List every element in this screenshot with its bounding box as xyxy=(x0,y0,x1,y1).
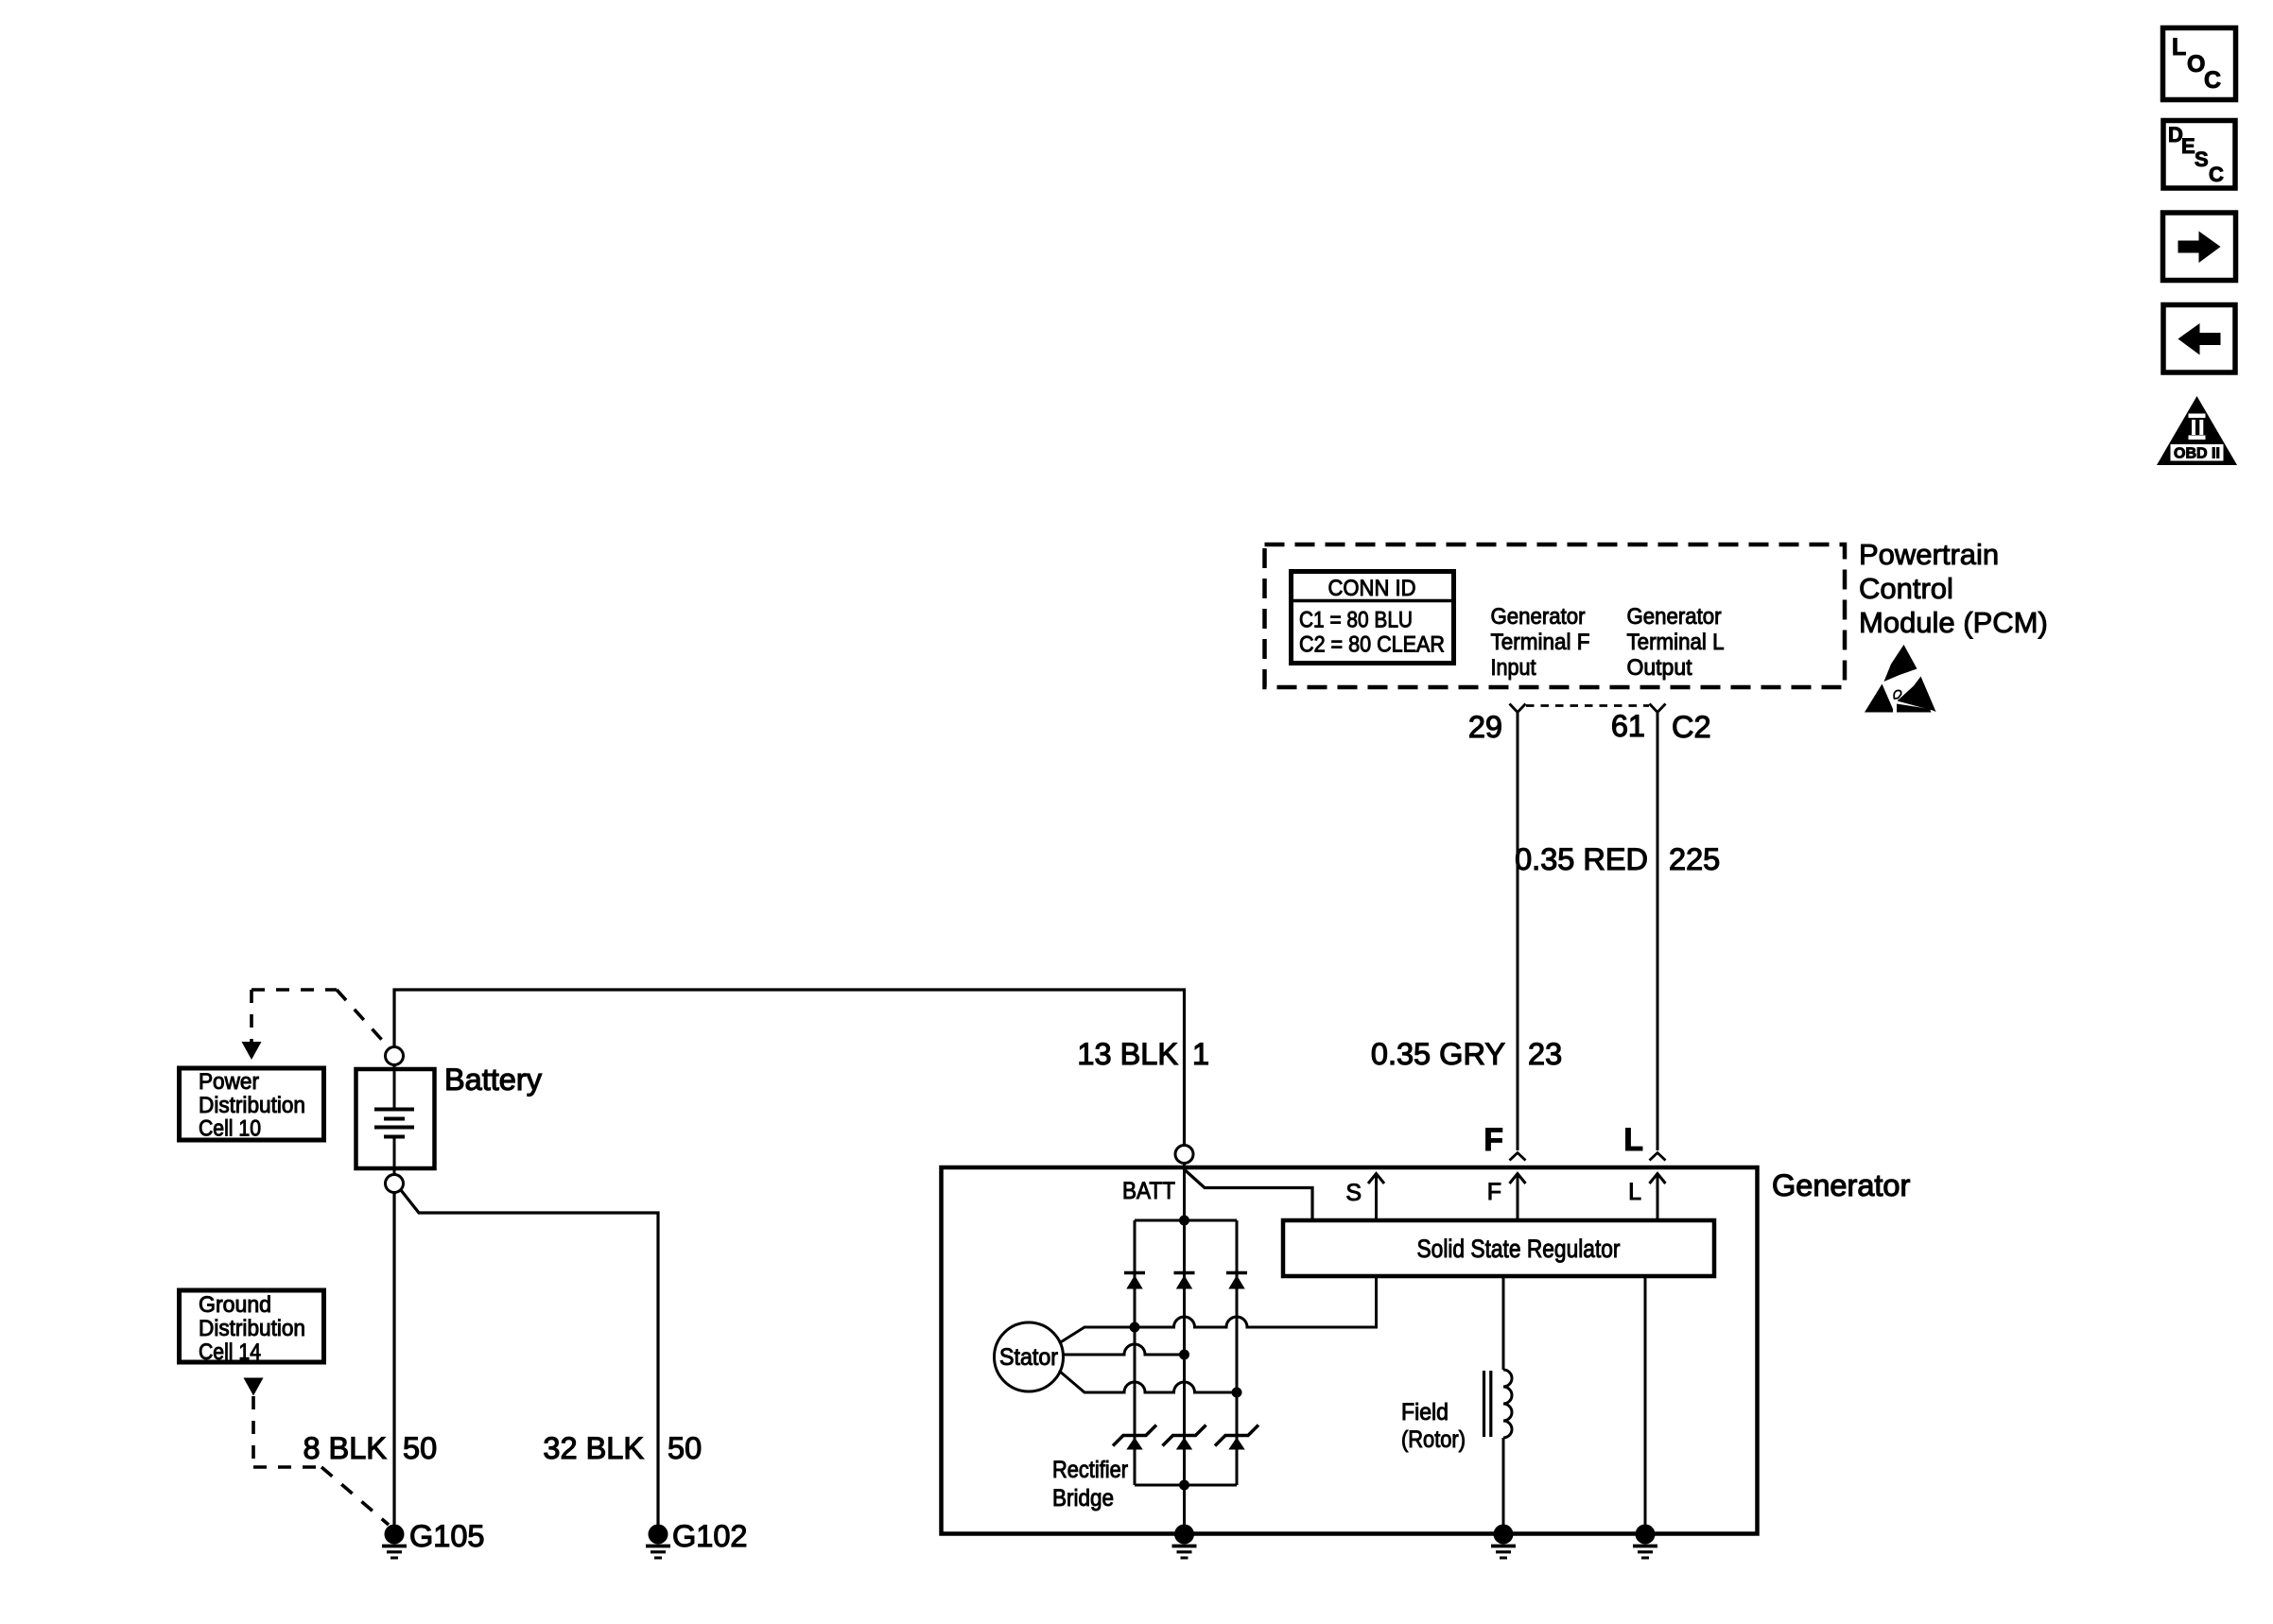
svg-text:Ground: Ground xyxy=(199,1292,271,1318)
icon OBD II triangle xyxy=(2157,396,2237,465)
svg-text:Module (PCM): Module (PCM) xyxy=(1859,606,2048,639)
diode D1 xyxy=(1124,1273,1145,1289)
svg-text:C: C xyxy=(2209,163,2224,186)
Generator box xyxy=(942,1167,1758,1534)
label Generator Terminal L Output xyxy=(1627,604,1725,681)
svg-text:Distribution: Distribution xyxy=(199,1316,305,1341)
wire battery+ to generator BATT (13 BLK) xyxy=(394,990,1185,1145)
svg-text:8 BLK: 8 BLK xyxy=(303,1431,387,1465)
svg-text:C2: C2 xyxy=(1672,710,1711,744)
svg-text:Terminal F: Terminal F xyxy=(1491,630,1590,655)
icon DESC box xyxy=(2163,121,2235,189)
field coil wire to ground xyxy=(1502,1438,1505,1534)
svg-text:C: C xyxy=(2204,67,2221,94)
S input arrow xyxy=(1345,1174,1384,1219)
field rotor coil wire xyxy=(1502,1276,1505,1370)
avalanche diode Z2 xyxy=(1163,1425,1206,1450)
svg-text:G102: G102 xyxy=(672,1519,748,1553)
junction dot bottom rail xyxy=(1179,1480,1189,1491)
svg-text:Generator: Generator xyxy=(1772,1168,1911,1202)
svg-text:Solid State Regulator: Solid State Regulator xyxy=(1417,1235,1621,1263)
ground G105 xyxy=(382,1519,485,1558)
stator phase A wire (top) xyxy=(1059,1278,1377,1343)
dashed reference to Ground Distribution Cell 14 xyxy=(244,1378,264,1396)
svg-text:0.35 GRY: 0.35 GRY xyxy=(1371,1037,1505,1071)
L input arrow xyxy=(1628,1174,1665,1219)
icon left-arrow box xyxy=(2163,305,2235,373)
svg-text:Generator: Generator xyxy=(1491,604,1586,630)
CONN ID table xyxy=(1292,572,1454,664)
label Powertrain Control Module (PCM) xyxy=(1859,538,2048,639)
rectifier top rail xyxy=(1135,1219,1237,1222)
svg-text:Stator: Stator xyxy=(999,1344,1058,1371)
wire BATT to regulator (sense) xyxy=(1186,1170,1313,1220)
generator L terminal chevron xyxy=(1650,1153,1666,1161)
svg-text:L: L xyxy=(1628,1179,1641,1205)
svg-text:S: S xyxy=(1345,1180,1362,1206)
stator phase C wire (bottom) xyxy=(1059,1371,1237,1392)
svg-text:E: E xyxy=(2181,134,2195,158)
svg-text:225: 225 xyxy=(1669,842,1720,876)
stator phase B wire (middle) xyxy=(1064,1344,1185,1355)
wire 0.35 RED 225 (PCM pin 61 to generator L) xyxy=(1657,713,1659,1151)
label Generator Terminal F Input xyxy=(1491,604,1590,681)
wire 0.35 GRY 23 (PCM pin 29 to generator F) xyxy=(1517,713,1519,1151)
svg-text:F: F xyxy=(1484,1122,1503,1158)
svg-text:Generator: Generator xyxy=(1627,604,1722,630)
rectifier right leg xyxy=(1236,1220,1239,1485)
icon LOC box xyxy=(2163,28,2236,100)
svg-text:L: L xyxy=(2172,34,2186,60)
junction dot phase A xyxy=(1130,1322,1140,1333)
svg-text:13 BLK: 13 BLK xyxy=(1077,1037,1178,1071)
wire BATT vertical through rectifier to ground xyxy=(1183,1164,1186,1535)
field coil xyxy=(1503,1370,1512,1438)
svg-text:Rectifier: Rectifier xyxy=(1052,1457,1128,1483)
svg-text:S: S xyxy=(2195,147,2209,171)
svg-text:L: L xyxy=(1623,1122,1643,1158)
avalanche diode Z3 xyxy=(1215,1425,1258,1450)
svg-text:Power: Power xyxy=(199,1069,259,1095)
generator internal ground 3 xyxy=(1633,1525,1657,1559)
svg-text:Cell 10: Cell 10 xyxy=(199,1116,261,1142)
wire battery- to G102 (32 BLK) xyxy=(401,1190,658,1530)
svg-text:BATT: BATT xyxy=(1122,1178,1175,1204)
svg-text:O: O xyxy=(2187,51,2205,78)
avalanche diode Z1 xyxy=(1113,1425,1156,1450)
rectifier left leg xyxy=(1134,1220,1136,1485)
svg-text:Input: Input xyxy=(1491,655,1536,681)
generator internal ground 2 xyxy=(1491,1525,1516,1559)
diode D3 xyxy=(1226,1273,1247,1289)
svg-text:Battery: Battery xyxy=(444,1063,543,1097)
svg-text:29: 29 xyxy=(1468,710,1502,744)
svg-text:OBD II: OBD II xyxy=(2174,446,2220,462)
svg-text:C2 = 80 CLEAR: C2 = 80 CLEAR xyxy=(1299,632,1445,658)
junction dot phase B xyxy=(1179,1350,1189,1360)
icon right-arrow box xyxy=(2163,213,2236,281)
svg-text:50: 50 xyxy=(403,1431,437,1465)
connector dashed line between pins 29 and 61 xyxy=(1526,704,1649,707)
rectifier bottom rail xyxy=(1135,1484,1237,1487)
svg-text:0.35 RED: 0.35 RED xyxy=(1515,842,1648,876)
battery + terminal circle xyxy=(386,1047,404,1065)
svg-text:1: 1 xyxy=(1192,1037,1209,1071)
svg-text:Cell 14: Cell 14 xyxy=(199,1339,261,1365)
svg-text:CONN ID: CONN ID xyxy=(1328,576,1416,601)
F input arrow xyxy=(1487,1174,1526,1219)
svg-text:Bridge: Bridge xyxy=(1052,1485,1114,1512)
svg-text:Field: Field xyxy=(1401,1399,1449,1425)
ESD symbol xyxy=(1865,645,1936,713)
svg-text:Distribution: Distribution xyxy=(199,1093,305,1118)
svg-text:Control: Control xyxy=(1859,572,1953,605)
svg-text:Powertrain: Powertrain xyxy=(1859,538,1999,571)
stator circle xyxy=(995,1322,1064,1391)
svg-text:(Rotor): (Rotor) xyxy=(1401,1426,1466,1453)
BATT terminal circle xyxy=(1175,1146,1193,1164)
dashed reference to Power Distribution Cell 10 xyxy=(252,990,389,1047)
svg-text:50: 50 xyxy=(668,1431,702,1465)
svg-text:F: F xyxy=(1487,1179,1501,1205)
generator F terminal chevron xyxy=(1510,1153,1526,1161)
Power Distribution Cell 10 box xyxy=(180,1068,324,1142)
regulator right ground wire xyxy=(1644,1276,1647,1534)
battery - terminal circle xyxy=(386,1175,404,1193)
svg-text:61: 61 xyxy=(1611,709,1645,743)
Solid State Regulator box xyxy=(1283,1220,1714,1276)
wire battery- to G105 (8 BLK) xyxy=(392,1193,395,1531)
generator internal ground 1 xyxy=(1172,1525,1197,1559)
field core bars xyxy=(1483,1371,1485,1437)
svg-text:C1 = 80 BLU: C1 = 80 BLU xyxy=(1299,608,1413,633)
svg-text:G105: G105 xyxy=(409,1519,485,1553)
svg-text:Terminal L: Terminal L xyxy=(1627,630,1725,655)
battery B+ xyxy=(356,1065,435,1175)
pin 61 Y connector xyxy=(1650,704,1666,713)
svg-text:32 BLK: 32 BLK xyxy=(543,1431,644,1465)
diode D2 xyxy=(1174,1273,1195,1289)
junction dot phase C xyxy=(1232,1388,1242,1398)
svg-text:23: 23 xyxy=(1528,1037,1562,1071)
ground G102 xyxy=(646,1519,748,1558)
PCM dashed outline box xyxy=(1265,544,1846,687)
svg-text:Output: Output xyxy=(1627,655,1692,681)
junction dot top rail xyxy=(1179,1216,1189,1226)
Ground Distribution Cell 14 box xyxy=(180,1290,324,1365)
pin 29 Y connector xyxy=(1510,704,1526,713)
